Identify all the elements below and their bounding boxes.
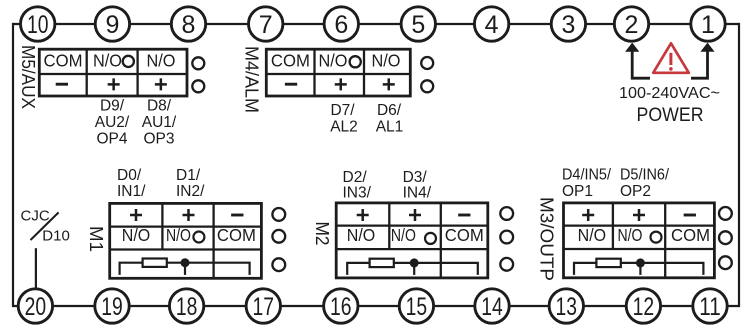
wire bottom bus (terminals 20 to 11): [13, 305, 739, 307]
svg-text:POWER: POWER: [637, 104, 704, 126]
terminal 3: [551, 7, 585, 41]
M5 N/O contact circle: [123, 56, 134, 67]
svg-text:OP1: OP1: [562, 183, 593, 200]
M2 indicator hole 3: [500, 258, 513, 271]
terminal block M3 table: [564, 203, 715, 278]
svg-text:3: 3: [561, 11, 575, 39]
M3 indicator hole 3: [719, 256, 732, 269]
wire left bus (terminal 10 down to terminal 20): [12, 23, 14, 307]
svg-text:12: 12: [633, 293, 655, 321]
svg-text:COM: COM: [271, 50, 310, 70]
svg-text:14: 14: [481, 293, 503, 321]
M1 indicator hole 2: [272, 230, 285, 243]
M5 indicator hole upper: [192, 57, 204, 69]
terminal block M5 table: [39, 49, 187, 96]
svg-text:8: 8: [182, 11, 196, 39]
M3 wire junction stub down: [639, 263, 641, 275]
M3 sensor wire bracket: [574, 263, 596, 275]
M1 junction dot: [181, 258, 190, 267]
M3 indicator hole 1: [719, 207, 732, 220]
terminal 13: [549, 289, 583, 323]
warning triangle: [653, 43, 689, 73]
svg-text:D9/: D9/: [100, 98, 125, 115]
svg-text:9: 9: [105, 11, 119, 39]
svg-text:1: 1: [701, 11, 715, 39]
terminal 4: [474, 7, 508, 41]
M5 plus sign (D8): [155, 78, 167, 90]
svg-text:6: 6: [334, 11, 348, 39]
svg-text:N/O: N/O: [93, 50, 122, 70]
svg-text:N/O: N/O: [578, 225, 607, 245]
terminal block M1 table: [110, 203, 262, 278]
M3 resistor: [596, 259, 620, 267]
svg-text:IN1/: IN1/: [117, 183, 146, 200]
svg-text:AU1/: AU1/: [142, 114, 177, 131]
M2 plus sign col1: [357, 209, 369, 221]
svg-text:OP3: OP3: [143, 131, 174, 148]
M4 N/O contact circle: [350, 56, 361, 67]
svg-text:D6/: D6/: [377, 102, 402, 119]
terminal 19: [95, 289, 129, 323]
svg-text:D4/IN5/: D4/IN5/: [562, 167, 612, 184]
svg-text:IN4/: IN4/: [403, 185, 432, 202]
terminal 18: [169, 289, 203, 323]
svg-text:2: 2: [625, 11, 639, 39]
M2 indicator hole 2: [500, 231, 513, 244]
svg-text:IN2/: IN2/: [176, 183, 205, 200]
svg-text:17: 17: [253, 293, 275, 321]
label D7/AL2: [330, 102, 358, 136]
svg-text:AL1: AL1: [376, 119, 404, 136]
M1 resistor: [143, 259, 167, 267]
M4 indicator hole upper: [421, 57, 433, 69]
terminal 6: [324, 7, 358, 41]
M1 plus sign col1: [130, 209, 142, 221]
svg-text:AU2/: AU2/: [95, 114, 130, 131]
M3 N/O contact circle: [651, 232, 662, 243]
terminal 5: [401, 7, 435, 41]
M1 sensor wire bracket: [120, 263, 143, 275]
label D9/AU2/OP4: [95, 98, 130, 148]
terminal 16: [324, 289, 358, 323]
terminal 11: [693, 289, 727, 323]
terminal 15: [399, 289, 433, 323]
M3 plus sign col2: [633, 209, 645, 221]
svg-text:COM: COM: [44, 50, 83, 70]
svg-text:N/O: N/O: [147, 50, 176, 70]
svg-text:OP4: OP4: [96, 131, 127, 148]
svg-text:M1: M1: [86, 226, 106, 252]
M4 indicator hole lower: [421, 80, 433, 92]
CJC slash: [31, 212, 59, 240]
svg-text:4: 4: [485, 11, 499, 39]
svg-text:N/O: N/O: [122, 225, 151, 245]
terminal 14: [475, 289, 509, 323]
svg-text:10: 10: [27, 11, 49, 39]
M2 wire junction stub down: [413, 263, 415, 275]
svg-text:11: 11: [699, 293, 721, 321]
svg-text:M2: M2: [312, 222, 332, 246]
M2 N/O contact circle: [425, 233, 436, 244]
svg-text:N/O: N/O: [391, 225, 416, 245]
svg-text:19: 19: [101, 293, 123, 321]
svg-text:N/O: N/O: [166, 225, 191, 245]
svg-text:N/O: N/O: [618, 225, 643, 245]
M3 indicator hole 2: [719, 231, 732, 244]
svg-text:COM: COM: [217, 225, 256, 245]
wire top bus (terminals 10 to 1): [13, 23, 739, 25]
M4 plus sign (D7): [335, 78, 347, 90]
M1 plus sign col2: [183, 209, 195, 221]
svg-text:7: 7: [259, 11, 273, 39]
svg-text:M3/OUTP: M3/OUTP: [537, 197, 557, 281]
terminal block M2 table: [336, 203, 488, 278]
svg-text:D1/: D1/: [176, 167, 201, 184]
M1 indicator hole 3: [272, 258, 285, 271]
svg-text:M5/AUX: M5/AUX: [18, 45, 38, 109]
terminal block M4 table: [266, 49, 410, 96]
M3 junction dot: [636, 258, 645, 267]
terminal 9: [95, 7, 129, 41]
M2 indicator hole 1: [500, 207, 513, 220]
svg-text:N/O: N/O: [319, 50, 348, 70]
svg-text:D3/: D3/: [403, 169, 428, 186]
svg-text:18: 18: [176, 293, 198, 321]
power wire arrow into terminal 2: [632, 50, 650, 78]
terminal 20: [18, 289, 52, 323]
M2 resistor: [370, 259, 394, 267]
M3 wire resistor to right stub: [621, 263, 704, 275]
svg-text:D0/: D0/: [117, 167, 142, 184]
M4 plus sign (D6): [383, 78, 395, 90]
svg-text:AL2: AL2: [330, 119, 358, 136]
terminal 1: [691, 7, 725, 41]
M2 wire resistor to right stub: [394, 263, 478, 275]
svg-text:100-240VAC~: 100-240VAC~: [619, 85, 720, 102]
terminal 12: [626, 289, 660, 323]
svg-text:OP2: OP2: [620, 183, 651, 200]
wire CJC to terminal 20: [35, 248, 37, 288]
M2 minus sign col3: [458, 214, 470, 217]
terminal 7: [249, 7, 283, 41]
svg-text:20: 20: [25, 293, 47, 321]
M1 indicator hole 1: [272, 208, 285, 221]
svg-text:CJC: CJC: [21, 207, 50, 224]
terminal 8: [171, 7, 205, 41]
svg-text:M4/ALM: M4/ALM: [242, 46, 262, 113]
M1 minus sign col3: [231, 214, 243, 217]
M2 plus sign col2: [409, 209, 421, 221]
svg-text:IN3/: IN3/: [343, 185, 372, 202]
label D6/AL1: [376, 102, 404, 136]
M5 indicator hole lower: [192, 80, 204, 92]
M5 minus sign: [56, 83, 68, 86]
terminal 2: [614, 7, 648, 41]
svg-text:D8/: D8/: [147, 98, 172, 115]
wire right bus (terminal 1 down to terminal 11): [738, 23, 740, 307]
svg-text:13: 13: [556, 293, 578, 321]
power wire arrow into terminal 1: [691, 50, 708, 78]
svg-text:5: 5: [411, 11, 425, 39]
terminal 17: [246, 289, 280, 323]
svg-text:D2/: D2/: [343, 169, 368, 186]
svg-text:N/O: N/O: [347, 225, 376, 245]
svg-text:15: 15: [406, 293, 428, 321]
M5 plus sign (D9): [108, 78, 120, 90]
M2 sensor wire bracket: [347, 263, 369, 275]
svg-text:COM: COM: [671, 225, 710, 245]
terminal 10: [21, 7, 55, 41]
M2 junction dot: [410, 258, 419, 267]
M1 wire junction stub down: [184, 263, 186, 275]
M1 N/O contact circle: [193, 232, 204, 243]
M4 minus sign: [285, 83, 297, 86]
svg-text:D7/: D7/: [330, 102, 355, 119]
svg-text:D5/IN6/: D5/IN6/: [620, 167, 670, 184]
svg-text:16: 16: [330, 293, 352, 321]
M1 wire resistor to right stub: [167, 263, 250, 275]
svg-text:D10: D10: [42, 227, 70, 244]
svg-text:N/O: N/O: [372, 50, 401, 70]
M3 minus sign col3: [684, 214, 696, 217]
label D8/AU1/OP3: [142, 98, 177, 148]
warning triangle exclamation: [669, 53, 672, 65]
M3 plus sign col1: [582, 209, 594, 221]
svg-text:COM: COM: [445, 225, 484, 245]
